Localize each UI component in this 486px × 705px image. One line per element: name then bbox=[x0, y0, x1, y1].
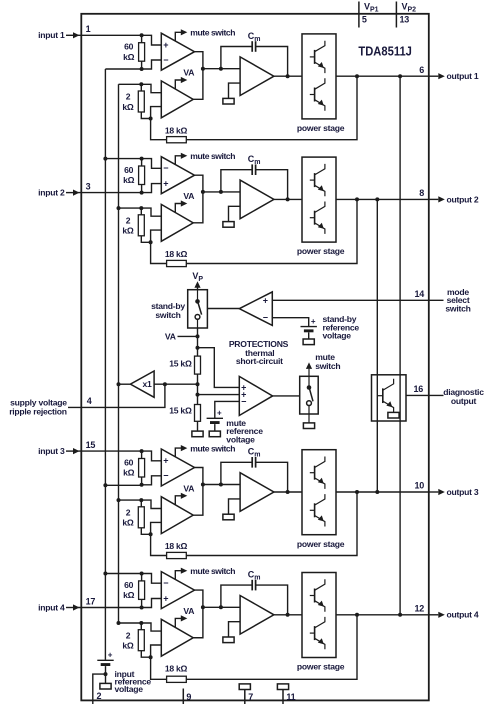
label mute reference voltage bbox=[226, 418, 263, 445]
wire mute switch to reference bbox=[308, 406, 310, 423]
wire op-amp outputs join ch4 bbox=[193, 590, 203, 638]
resistor 2 k&#937; ch2 bbox=[138, 208, 150, 242]
svg-text:input 4: input 4 bbox=[38, 602, 65, 612]
svg-text:60: 60 bbox=[124, 458, 134, 468]
plus mark ch1 bbox=[163, 40, 168, 50]
svg-text:7: 7 bbox=[248, 692, 253, 702]
wire Cm left ch2 bbox=[221, 170, 252, 192]
resistor 2 k&#937; ch4 bbox=[138, 623, 150, 657]
node rail-ref ch3 bbox=[103, 483, 107, 487]
node power amp input ch2 bbox=[201, 190, 205, 194]
wire stand-by comparator inv input bbox=[272, 318, 308, 327]
wire input 4 bbox=[78, 607, 142, 609]
transistor lower power stage ch1 bbox=[310, 78, 325, 110]
node diag rail output 1 bbox=[398, 74, 402, 78]
wire 2k bottom to VA inv bbox=[151, 645, 162, 657]
output 2 arrow bbox=[429, 196, 445, 202]
node output ch1 bbox=[286, 74, 290, 78]
resistor 18 k&#937; ch3 bbox=[167, 552, 187, 558]
resistor 15 k&#937; lower bbox=[195, 405, 201, 422]
svg-text:−: − bbox=[163, 578, 168, 588]
label power stage ch4 bbox=[297, 662, 345, 672]
svg-text:output 3: output 3 bbox=[447, 487, 479, 497]
svg-text:10: 10 bbox=[414, 481, 424, 491]
resistor 18 k&#937; ch1 bbox=[167, 137, 187, 143]
wire input 3 bbox=[78, 450, 142, 452]
op-amp VA stage ch3 bbox=[161, 497, 193, 534]
plus mark protections 1 bbox=[241, 382, 246, 392]
capacitor Cm ch4 bbox=[252, 580, 255, 591]
svg-text:mute switch: mute switch bbox=[190, 28, 235, 38]
node power amp input ch3 bbox=[201, 483, 205, 487]
pin 7 stub bbox=[244, 690, 246, 705]
reference symbol mute reference bbox=[209, 431, 220, 437]
label input 4 bbox=[38, 602, 65, 612]
reference symbol divider bbox=[192, 431, 203, 437]
svg-text:15: 15 bbox=[86, 440, 96, 450]
svg-text:−: − bbox=[263, 313, 268, 323]
wire 2k top to VA rail bbox=[119, 83, 142, 85]
node output ch4 bbox=[286, 613, 290, 617]
svg-text:8: 8 bbox=[419, 188, 424, 198]
pin 9 stub bbox=[182, 689, 184, 705]
mute switch contact top bbox=[307, 385, 312, 390]
wire ch2 ref line bbox=[105, 158, 141, 160]
node 2k top ch2 bbox=[139, 206, 143, 210]
wire to noninv input bbox=[142, 35, 162, 45]
wire diag emitter to reference bbox=[393, 412, 395, 414]
wire comparator to stand-by switch bbox=[207, 308, 239, 310]
stand-by switch contact bottom bbox=[195, 315, 200, 329]
wire 18k to output rail ch2 bbox=[186, 199, 357, 263]
op-amp x1 buffer bbox=[130, 371, 154, 397]
svg-text:12: 12 bbox=[414, 603, 424, 613]
capacitor Cm ch1 bbox=[252, 41, 255, 52]
wire power amp out ch3 bbox=[274, 491, 302, 493]
svg-text:+: + bbox=[108, 651, 113, 660]
wire power amp out ch1 bbox=[274, 75, 302, 77]
node feedback output 2 bbox=[355, 197, 359, 201]
svg-text:power stage: power stage bbox=[297, 246, 345, 256]
power stage box ch3 bbox=[302, 450, 336, 535]
input 3 pin 15 arrow bbox=[66, 448, 80, 454]
wire power amp ref stub ch2 bbox=[229, 206, 241, 221]
transistor lower power stage ch2 bbox=[310, 202, 325, 234]
pin 10 number bbox=[414, 481, 424, 491]
node input reference bbox=[104, 672, 108, 676]
svg-text:+: + bbox=[311, 317, 316, 326]
minus mark ch3 bbox=[163, 471, 168, 481]
svg-text:ripple rejection: ripple rejection bbox=[9, 407, 67, 417]
wire op-amp outputs join ch1 bbox=[193, 52, 203, 100]
label VP2 bbox=[402, 1, 417, 13]
label output 3 bbox=[447, 487, 479, 497]
wire output 1 bbox=[336, 75, 429, 77]
transistor lower power stage ch3 bbox=[310, 494, 325, 526]
svg-text:+: + bbox=[217, 409, 222, 418]
VA arrow ch2 bbox=[175, 200, 187, 212]
node Cm tap ch1 bbox=[219, 67, 223, 71]
label 2 kohm ch2 bbox=[122, 216, 134, 236]
pin 3 number bbox=[86, 181, 91, 191]
node 2k bottom ch1 bbox=[149, 117, 153, 121]
wire Cm right ch2 bbox=[256, 170, 288, 200]
wire output 4 bbox=[336, 614, 429, 616]
transistor upper power stage ch4 bbox=[310, 579, 325, 611]
reference symbol stand-by bbox=[303, 339, 314, 345]
node rail-ref ch4 bbox=[103, 572, 107, 576]
svg-text:+: + bbox=[163, 40, 168, 50]
wire ch4 ref line bbox=[105, 573, 141, 575]
wire output 2 bbox=[336, 198, 429, 200]
reference symbol power amp ch4 bbox=[223, 637, 234, 643]
stand-by switch lever bbox=[198, 302, 202, 315]
node output ch2 bbox=[286, 197, 290, 201]
VA arrow ch4 bbox=[175, 615, 187, 627]
label stand-by reference voltage bbox=[323, 314, 360, 340]
pin 13 VP2 stub bbox=[395, 2, 397, 28]
label VA ch1 bbox=[183, 68, 194, 78]
node Cm tap ch4 bbox=[219, 605, 223, 609]
wire to power amp ch3 bbox=[203, 484, 240, 486]
svg-text:kΩ: kΩ bbox=[123, 175, 135, 185]
label 2 kohm ch4 bbox=[122, 630, 134, 650]
node x1 input pin4 join bbox=[163, 382, 167, 386]
wire 18k to output rail ch3 bbox=[186, 492, 357, 556]
wire 2k top to VA noninv bbox=[141, 623, 161, 631]
wire x1 input bbox=[154, 383, 197, 385]
svg-text:VA: VA bbox=[183, 68, 194, 78]
wire input to noninv input bbox=[142, 184, 162, 193]
label VA ch2 bbox=[183, 191, 194, 201]
plus mark protections 2 bbox=[241, 390, 246, 400]
wire to power amp ch2 bbox=[203, 191, 240, 193]
wire to 18k ch3 bbox=[151, 534, 167, 555]
node 2k top ch1 bbox=[139, 82, 143, 86]
transistor lower power stage ch4 bbox=[310, 617, 325, 649]
node diag rail output 4 bbox=[398, 613, 402, 617]
node rail-VA ch3 bbox=[117, 498, 121, 502]
op-amp input stage ch4 bbox=[161, 572, 194, 609]
svg-text:18 kΩ: 18 kΩ bbox=[165, 663, 188, 673]
wire op-amp outputs join ch2 bbox=[193, 175, 203, 223]
svg-text:output 1: output 1 bbox=[447, 71, 479, 81]
wire Cm right ch4 bbox=[256, 585, 288, 615]
label output 2 bbox=[447, 194, 479, 204]
output 1 arrow bbox=[429, 73, 445, 79]
node Cm tap ch2 bbox=[219, 190, 223, 194]
label 18 kohm ch2 bbox=[165, 249, 188, 259]
wire power amp ref stub ch3 bbox=[229, 499, 241, 514]
op-amp protections bbox=[239, 376, 272, 415]
VA arrow ch1 bbox=[175, 77, 187, 89]
label power stage ch1 bbox=[297, 123, 345, 133]
wire power amp out ch2 bbox=[274, 198, 302, 200]
wire to power amp ch4 bbox=[203, 606, 240, 608]
op-amp power ch2 bbox=[240, 180, 274, 219]
svg-text:+: + bbox=[163, 593, 168, 603]
reference symbol mute switch bbox=[303, 423, 314, 429]
mute switch arrow up bbox=[306, 362, 312, 387]
output 4 arrow bbox=[429, 612, 445, 618]
resistor 60 k&#937; ch3 bbox=[139, 451, 145, 485]
wire to noninv input bbox=[142, 451, 162, 461]
svg-text:1: 1 bbox=[86, 24, 91, 34]
wire 2k top to VA noninv bbox=[141, 500, 161, 508]
svg-text:6: 6 bbox=[419, 65, 424, 75]
wire pin 4 supply ripple bbox=[68, 384, 165, 407]
label 60 kohm ch4 bbox=[123, 580, 135, 600]
node feedback output 4 bbox=[355, 613, 359, 617]
pin 6 number bbox=[419, 65, 424, 75]
wire output 3 bbox=[336, 491, 429, 493]
comparator stand-by bbox=[239, 292, 272, 326]
label 60 kohm ch1 bbox=[123, 42, 135, 62]
label mute switch center bbox=[315, 352, 340, 371]
svg-text:+: + bbox=[163, 456, 168, 466]
op-amp VA stage ch4 bbox=[161, 619, 193, 656]
label 18 kohm ch1 bbox=[165, 125, 188, 135]
op-amp input stage ch2 bbox=[161, 157, 194, 194]
label VA ch4 bbox=[183, 606, 194, 616]
svg-text:13: 13 bbox=[400, 15, 410, 25]
node feedback output 1 bbox=[355, 74, 359, 78]
wire protections output bbox=[273, 395, 300, 397]
wire x1 output to VA rail bbox=[119, 383, 131, 385]
label 60 kohm ch3 bbox=[123, 458, 135, 478]
wire power amp ref stub ch1 bbox=[229, 83, 241, 98]
svg-text:4: 4 bbox=[87, 396, 92, 406]
node 2k bottom ch2 bbox=[149, 240, 153, 244]
wire input 1 bbox=[78, 34, 142, 36]
pin 5 VP1 stub bbox=[358, 2, 360, 28]
label mute switch ch4 bbox=[190, 566, 235, 576]
pin 12 number bbox=[414, 603, 424, 613]
transistor upper power stage ch2 bbox=[310, 164, 325, 196]
wire diagnostic rail A (outputs 1-4) bbox=[399, 76, 401, 615]
reference symbol power amp ch1 bbox=[223, 98, 234, 104]
op-amp VA stage ch2 bbox=[161, 204, 193, 241]
wire Cm right ch3 bbox=[256, 462, 288, 492]
label PROTECTIONS bbox=[229, 339, 289, 366]
label Cm ch3 bbox=[248, 447, 261, 459]
svg-text:15 kΩ: 15 kΩ bbox=[169, 405, 192, 415]
svg-text:voltage: voltage bbox=[115, 684, 144, 694]
capacitor Cm ch3 bbox=[252, 457, 255, 468]
resistor 60 k&#937; ch1 bbox=[139, 35, 145, 69]
label output 4 bbox=[447, 610, 479, 620]
wire to 18k ch2 bbox=[151, 242, 167, 263]
svg-text:mute switch: mute switch bbox=[190, 566, 235, 576]
wire to inv input bbox=[142, 574, 162, 584]
minus mark ch2 bbox=[163, 163, 168, 173]
wire to 18k ch4 bbox=[151, 657, 167, 679]
label diagnostic output bbox=[443, 387, 484, 406]
wire to protections input 1 bbox=[198, 348, 240, 388]
svg-text:TDA8511J: TDA8511J bbox=[358, 43, 412, 58]
pin 2 number bbox=[97, 691, 102, 701]
wire mute ref battery to reference symbol bbox=[214, 424, 216, 431]
node feedback output 3 bbox=[355, 490, 359, 494]
node divider mid lower bbox=[196, 393, 200, 397]
wire power amp out ch4 bbox=[274, 614, 302, 616]
node input 3 / 60k top bbox=[140, 449, 144, 453]
wire power amp ref stub ch4 bbox=[229, 622, 241, 637]
label VA ch3 bbox=[183, 484, 194, 494]
svg-text:5: 5 bbox=[362, 15, 367, 25]
wire to protections input 2 bbox=[198, 394, 240, 396]
label input 3 bbox=[38, 446, 65, 456]
label x1 bbox=[142, 379, 152, 389]
input 2 pin 3 arrow bbox=[66, 190, 80, 196]
svg-text:switch: switch bbox=[445, 304, 470, 314]
wire Cm left ch3 bbox=[221, 462, 252, 484]
wire 60k bottom to inv input bbox=[142, 60, 162, 69]
svg-text:mute switch: mute switch bbox=[190, 443, 235, 453]
input 4 pin 17 arrow bbox=[66, 604, 80, 610]
minus mark protections bbox=[241, 396, 246, 406]
wire ch3 60k bottom to rail bbox=[105, 484, 141, 486]
wire input 2 bbox=[78, 192, 142, 194]
node diag rail output 3 bbox=[375, 490, 379, 494]
pin 8 number bbox=[419, 188, 424, 198]
IC boundary box TDA8511J bbox=[81, 14, 429, 701]
wire 18k to output rail ch4 bbox=[186, 615, 357, 680]
label 15 kohm upper bbox=[169, 359, 192, 369]
wire 2k top to VA rail bbox=[119, 499, 142, 501]
wire mode select pin 14 bbox=[272, 299, 443, 301]
svg-text:input 3: input 3 bbox=[38, 446, 65, 456]
svg-text:kΩ: kΩ bbox=[122, 641, 134, 651]
wire 2k bottom to VA inv bbox=[151, 107, 162, 119]
svg-text:power stage: power stage bbox=[297, 539, 345, 549]
svg-text:2: 2 bbox=[126, 508, 131, 518]
mute switch contact bottom bbox=[307, 401, 312, 406]
svg-text:−: − bbox=[163, 163, 168, 173]
resistor 18 k&#937; ch4 bbox=[167, 676, 187, 682]
wire battery to reference symbol bbox=[308, 332, 310, 339]
svg-text:+: + bbox=[163, 179, 168, 189]
svg-text:60: 60 bbox=[124, 580, 134, 590]
svg-text:output 2: output 2 bbox=[447, 194, 479, 204]
svg-text:16: 16 bbox=[413, 384, 423, 394]
battery input reference voltage bbox=[97, 651, 113, 666]
op-amp VA stage ch1 bbox=[161, 81, 193, 118]
wire divider middle bbox=[197, 374, 199, 404]
wire to power amp ch1 bbox=[203, 68, 240, 70]
node 60k top ch4 bbox=[140, 572, 144, 576]
node x1 output rail bbox=[117, 382, 121, 386]
label input reference voltage bbox=[115, 669, 152, 694]
svg-text:17: 17 bbox=[86, 596, 96, 606]
node Cm tap ch3 bbox=[219, 483, 223, 487]
wire op-amp outputs join ch3 bbox=[193, 468, 203, 516]
svg-text:kΩ: kΩ bbox=[123, 468, 135, 478]
node 60k top ch2 bbox=[140, 157, 144, 161]
wire 2k top to VA noninv bbox=[141, 84, 161, 92]
wire Cm left ch1 bbox=[221, 47, 252, 69]
svg-text:voltage: voltage bbox=[323, 331, 352, 341]
node 60k bottom ch1 bbox=[140, 67, 144, 71]
mute switch arrow ch4 bbox=[175, 568, 187, 580]
pin 1 number bbox=[86, 24, 91, 34]
svg-text:2: 2 bbox=[97, 691, 102, 701]
svg-text:kΩ: kΩ bbox=[123, 52, 135, 62]
pin 14 number bbox=[414, 289, 424, 299]
svg-text:switch: switch bbox=[315, 361, 340, 371]
resistor 2 k&#937; ch3 bbox=[138, 500, 150, 534]
svg-text:15 kΩ: 15 kΩ bbox=[169, 359, 192, 369]
node 2k bottom ch4 bbox=[149, 655, 153, 659]
wire diagnostic rail B (outputs 2-3) bbox=[376, 199, 378, 492]
pin 11 number bbox=[286, 692, 295, 702]
stand-by switch contact top bbox=[195, 290, 200, 304]
label mute switch ch3 bbox=[190, 443, 235, 453]
svg-text:14: 14 bbox=[414, 289, 424, 299]
wire pin 2 bbox=[93, 674, 106, 704]
svg-text:11: 11 bbox=[286, 692, 295, 702]
node 60k bottom input 2 bbox=[140, 191, 144, 195]
node 2k top ch4 bbox=[139, 621, 143, 625]
pin 4 number bbox=[87, 396, 92, 406]
op-amp input stage ch3 bbox=[161, 449, 194, 486]
label VP1 bbox=[364, 1, 379, 13]
label mute switch ch2 bbox=[190, 151, 235, 161]
resistor 18 k&#937; ch2 bbox=[167, 260, 187, 266]
svg-text:kΩ: kΩ bbox=[123, 590, 135, 600]
svg-text:60: 60 bbox=[124, 165, 134, 175]
input 1 pin 1 arrow bbox=[66, 32, 80, 38]
pin 15 number bbox=[86, 440, 96, 450]
wire protections inv to mute reference bbox=[215, 401, 240, 418]
node rail-ref ch2 bbox=[103, 157, 107, 161]
reference symbol power amp ch3 bbox=[223, 514, 234, 520]
wire lower 15k to reference bbox=[197, 421, 199, 431]
svg-text:VA: VA bbox=[183, 191, 194, 201]
mute switch arrow ch2 bbox=[175, 153, 187, 165]
node input 1 / 60k top bbox=[140, 33, 144, 37]
wire 2k bottom to VA inv bbox=[151, 230, 162, 242]
node divider mid upper bbox=[196, 382, 200, 386]
wire rail VA (2k common) bbox=[118, 84, 120, 623]
op-amp power ch1 bbox=[240, 57, 274, 96]
svg-text:voltage: voltage bbox=[226, 435, 255, 445]
op-amp power ch4 bbox=[240, 596, 274, 635]
svg-text:−: − bbox=[163, 55, 168, 65]
node VA bbox=[196, 334, 200, 338]
battery mute reference voltage bbox=[207, 409, 223, 424]
wire to 18k ch1 bbox=[151, 119, 167, 140]
plus mark ch2 bbox=[163, 179, 168, 189]
label 18 kohm ch3 bbox=[165, 541, 188, 551]
label Cm ch2 bbox=[248, 154, 261, 166]
wire 2k top to VA rail bbox=[119, 207, 142, 209]
reference symbol power amp ch2 bbox=[223, 222, 234, 228]
svg-text:x1: x1 bbox=[142, 379, 152, 389]
wire 18k to output rail ch1 bbox=[186, 76, 357, 140]
node 60k bottom input 4 bbox=[140, 606, 144, 610]
capacitor Cm ch2 bbox=[252, 164, 255, 175]
resistor 60 k&#937; ch2 bbox=[139, 159, 145, 193]
node power amp input ch4 bbox=[201, 605, 205, 609]
svg-text:kΩ: kΩ bbox=[122, 518, 134, 528]
label input 1 bbox=[38, 30, 65, 40]
VP arrow bbox=[194, 281, 200, 290]
wire 2k bottom to VA inv bbox=[151, 522, 162, 534]
label 2 kohm ch3 bbox=[122, 508, 134, 528]
label stand-by switch bbox=[151, 301, 185, 320]
node 2k top ch3 bbox=[139, 498, 143, 502]
